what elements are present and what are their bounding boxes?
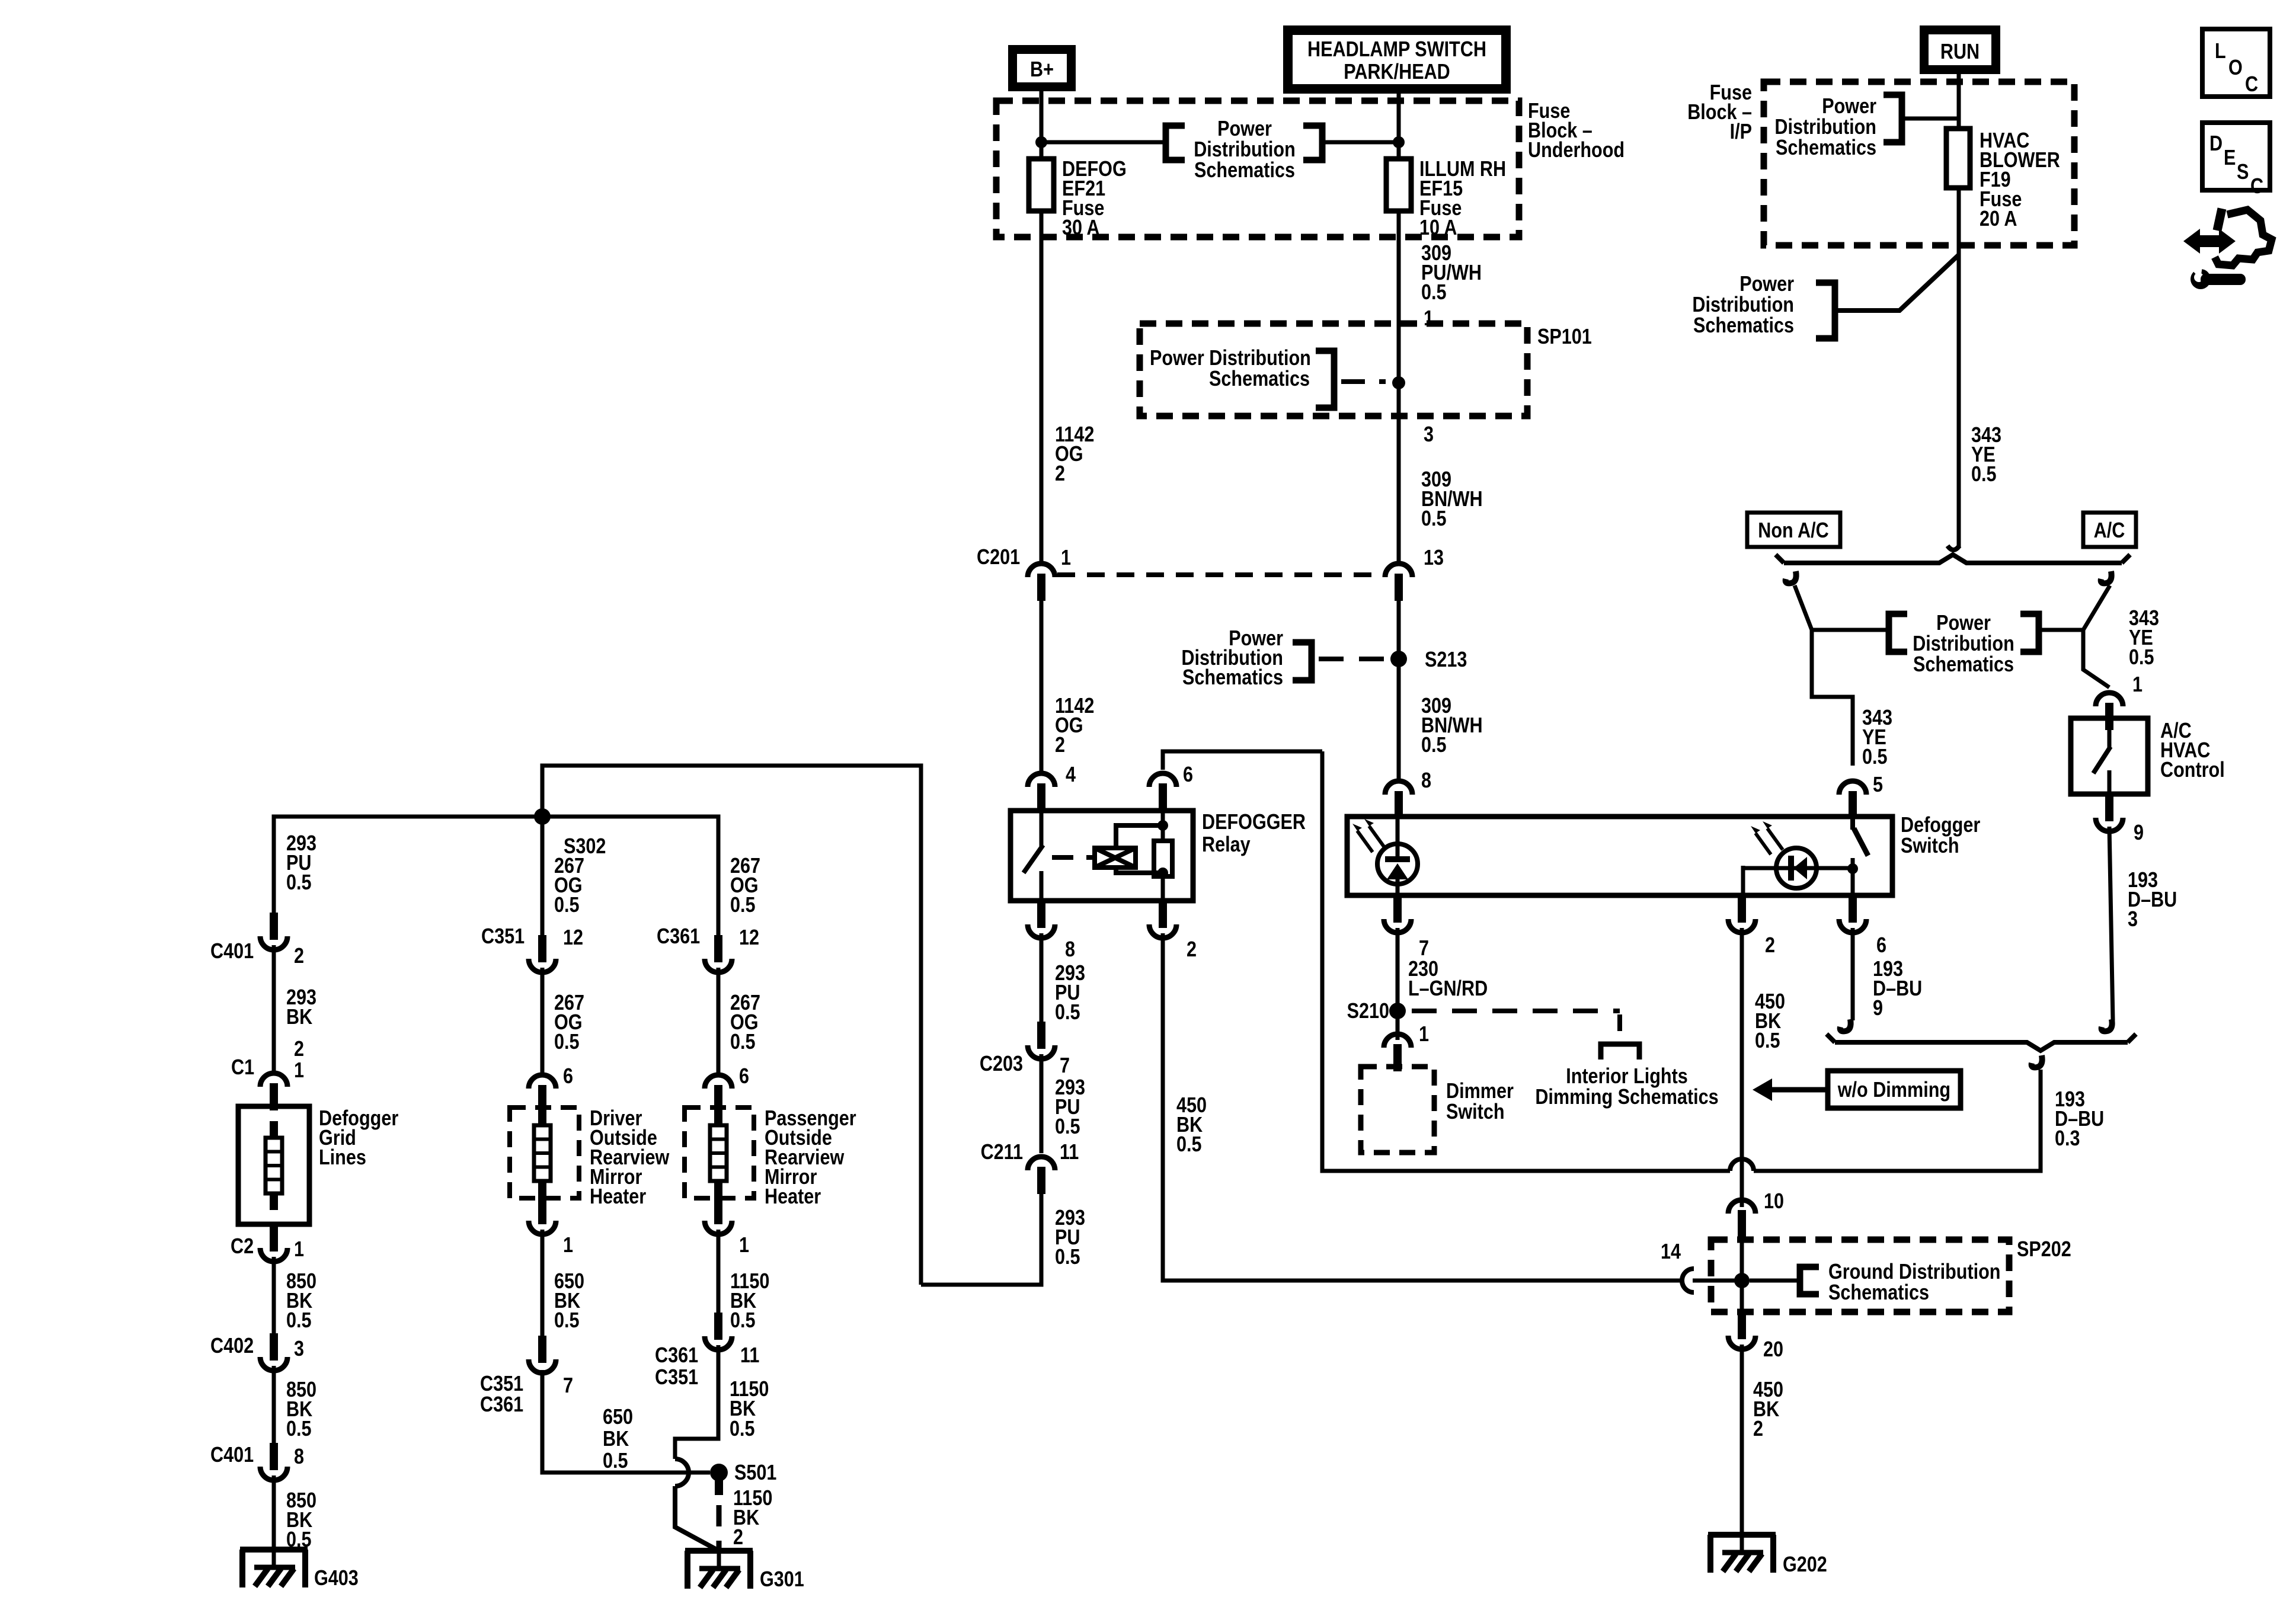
- svg-text:Relay: Relay: [1202, 833, 1251, 857]
- svg-text:0.5: 0.5: [1421, 507, 1447, 531]
- splice S302 dot: [534, 808, 551, 825]
- svg-text:10 A: 10 A: [1419, 216, 1457, 240]
- svg-text:C351: C351: [481, 925, 525, 949]
- wire AC pin9 down: [2109, 827, 2113, 1020]
- wrench and arrow icon: [2183, 209, 2272, 289]
- svg-text:1: 1: [294, 1238, 304, 1262]
- svg-text:C203: C203: [980, 1052, 1023, 1076]
- svg-text:0.3: 0.3: [2055, 1127, 2080, 1151]
- svg-text:11: 11: [1060, 1141, 1079, 1164]
- connector switch pin 7: [1384, 895, 1411, 933]
- svg-text:C2: C2: [231, 1235, 254, 1259]
- svg-text:2: 2: [294, 1038, 304, 1061]
- svg-text:6: 6: [739, 1065, 749, 1089]
- dimmer switch dashed box: [1361, 1067, 1434, 1153]
- relay DEFOGGER Relay box: [1011, 811, 1193, 901]
- svg-text:S210: S210: [1347, 1000, 1389, 1023]
- svg-text:6: 6: [1876, 934, 1886, 958]
- fuse HVAC BLOWER F19 20A: [1946, 129, 1970, 188]
- node Non A/C tag: [1747, 513, 1840, 547]
- relay switch contact: [1040, 811, 1044, 846]
- svg-text:0.5: 0.5: [603, 1449, 628, 1473]
- wire bracket to illum: [1322, 140, 1399, 145]
- svg-text:C: C: [2250, 175, 2263, 199]
- wire A/C branch: [2101, 571, 2112, 583]
- svg-text:Distribution: Distribution: [1692, 293, 1794, 317]
- wire dot to bracket: [1041, 140, 1166, 145]
- svg-text:Underhood: Underhood: [1528, 139, 1625, 162]
- svg-text:w/o Dimming: w/o Dimming: [1837, 1078, 1950, 1102]
- svg-text:Defogger: Defogger: [1901, 814, 1980, 837]
- relay coil: [1095, 825, 1163, 873]
- splice option brace top: [1776, 546, 2130, 563]
- svg-text:0.5: 0.5: [554, 894, 580, 917]
- wire below passenger pin 1: [717, 1230, 721, 1314]
- wire Non A/C branch: [1786, 571, 1796, 583]
- ground G301: [685, 1546, 753, 1589]
- svg-text:2: 2: [1055, 462, 1065, 486]
- svg-text:0.5: 0.5: [286, 1309, 312, 1333]
- splice S210 dot: [1389, 1003, 1406, 1019]
- svg-text:14: 14: [1661, 1240, 1681, 1264]
- wire below fuse: [1957, 188, 1961, 548]
- node B+: [1008, 45, 1076, 91]
- svg-text:1: 1: [1419, 1023, 1429, 1046]
- LED indicator right: [1743, 821, 1853, 895]
- svg-text:4: 4: [1066, 763, 1076, 787]
- svg-text:Dimming Schematics: Dimming Schematics: [1535, 1086, 1718, 1109]
- wire dashed SP101 bracket to node: [1341, 379, 1386, 384]
- svg-text:1: 1: [2132, 673, 2142, 697]
- defogger grid element: [266, 1121, 282, 1210]
- svg-text:Power: Power: [1217, 117, 1272, 141]
- svg-text:Distribution: Distribution: [1194, 138, 1296, 162]
- svg-text:7: 7: [1419, 937, 1429, 961]
- AC HVAC control box: [2071, 718, 2148, 794]
- bracket right power distribution: [1303, 126, 1322, 160]
- svg-text:650: 650: [603, 1406, 633, 1429]
- wire relay pin2 down to SP202 feed: [1163, 933, 1682, 1281]
- svg-text:6: 6: [563, 1065, 573, 1089]
- wire to G202: [1740, 1345, 1744, 1553]
- svg-text:9: 9: [1873, 997, 1883, 1020]
- node SP101 junction dot: [1392, 376, 1405, 389]
- LED indicator left: [1352, 817, 1418, 895]
- svg-text:2: 2: [294, 945, 304, 968]
- splice S501 dot: [710, 1464, 728, 1481]
- svg-text:12: 12: [563, 926, 583, 950]
- wire below C351: [541, 968, 545, 1073]
- wire below C2: [272, 1257, 276, 1334]
- wire S302 left branch: [274, 817, 542, 914]
- svg-text:Schematics: Schematics: [1194, 159, 1295, 183]
- wire below driver pin 1: [541, 1230, 545, 1337]
- wire driver down and right to S501: [542, 1370, 710, 1473]
- svg-text:0.5: 0.5: [554, 1030, 580, 1054]
- ground G403: [240, 1545, 308, 1587]
- connector pin 20: [1728, 1312, 1755, 1349]
- node junction dot right: [1393, 136, 1405, 148]
- defogger grid lines box: [238, 1106, 309, 1224]
- wire switch pin7 down: [1396, 928, 1400, 1040]
- svg-text:BK: BK: [603, 1427, 629, 1451]
- svg-text:Interior Lights: Interior Lights: [1566, 1065, 1688, 1089]
- bracket left power distribution: [1166, 126, 1185, 160]
- svg-text:L: L: [2215, 40, 2226, 63]
- svg-text:Power: Power: [1822, 95, 1876, 119]
- wire dashed S501 to ground: [715, 1480, 723, 1495]
- svg-text:3: 3: [2128, 908, 2138, 932]
- svg-text:0.5: 0.5: [286, 871, 312, 895]
- svg-text:13: 13: [1424, 546, 1444, 570]
- svg-text:A/C: A/C: [2094, 519, 2125, 543]
- svg-text:Dimmer: Dimmer: [1446, 1080, 1514, 1103]
- svg-text:E: E: [2224, 146, 2236, 170]
- svg-text:1: 1: [739, 1234, 749, 1257]
- splice merge brace bottom: [1840, 1019, 1851, 1031]
- svg-text:C211: C211: [981, 1141, 1023, 1164]
- svg-text:C361: C361: [480, 1393, 523, 1417]
- node w/o Dimming tag: [1753, 1071, 1961, 1108]
- wire below C203: [1040, 1054, 1044, 1153]
- svg-text:C201: C201: [977, 546, 1020, 569]
- relay resistor: [1154, 841, 1172, 876]
- svg-text:HEADLAMP SWITCH: HEADLAMP SWITCH: [1307, 38, 1486, 62]
- node SP202 junction dot: [1734, 1273, 1750, 1288]
- DESC box: [2202, 123, 2270, 199]
- svg-text:RUN: RUN: [1940, 40, 1980, 64]
- svg-text:C361: C361: [657, 925, 700, 949]
- svg-text:D: D: [2209, 132, 2223, 156]
- wire B+ down: [1040, 91, 1044, 159]
- svg-text:2: 2: [1187, 938, 1197, 962]
- AC control switch contact: [2108, 718, 2112, 748]
- svg-text:6: 6: [1183, 763, 1193, 787]
- svg-text:S: S: [2237, 161, 2249, 184]
- driver mirror heater element: [534, 1109, 551, 1198]
- svg-text:Power: Power: [1739, 273, 1794, 296]
- wire switch pin6 down: [1851, 928, 1855, 1020]
- svg-text:1: 1: [294, 1059, 304, 1083]
- connector relay pin 2: [1149, 901, 1176, 938]
- wire below C211 to riser: [921, 1193, 1041, 1285]
- svg-text:Schematics: Schematics: [1828, 1281, 1929, 1305]
- svg-text:B+: B+: [1030, 58, 1054, 82]
- svg-text:G202: G202: [1783, 1553, 1827, 1577]
- svg-text:3: 3: [1424, 423, 1434, 447]
- node junction dot left: [1035, 136, 1047, 148]
- wire riser up and over to S302: [542, 766, 921, 1285]
- wire switch pin2 down: [1740, 928, 1744, 1207]
- wire A below C201: [1040, 600, 1044, 771]
- node RUN: [1920, 25, 2000, 74]
- svg-text:Schematics: Schematics: [1182, 666, 1283, 690]
- svg-text:Switch: Switch: [1901, 834, 1959, 858]
- svg-text:Lines: Lines: [319, 1146, 366, 1170]
- connector passenger mirror pin 1: [705, 1197, 732, 1234]
- svg-text:12: 12: [739, 926, 759, 950]
- node A/C tag: [2083, 513, 2136, 547]
- splice SP202 dashed box: [1711, 1240, 2009, 1312]
- wire bracket to HVAC wire: [1902, 117, 1959, 121]
- fuse DEFOG EF21 30A: [1029, 159, 1054, 211]
- svg-text:Distribution: Distribution: [1913, 632, 2014, 656]
- svg-text:Schematics: Schematics: [1776, 136, 1876, 160]
- wire relay pin8 down: [1040, 933, 1044, 1023]
- svg-text:C1: C1: [231, 1056, 254, 1080]
- wire passenger loop to ground: [675, 1345, 718, 1459]
- wire illum fuse down to C201: [1397, 211, 1401, 561]
- svg-text:3: 3: [294, 1337, 304, 1361]
- fuse block IP dashed box: [1764, 82, 2074, 245]
- svg-text:1: 1: [1061, 546, 1071, 570]
- bracket SP101: [1316, 351, 1334, 408]
- connector relay pin 8: [1028, 901, 1055, 938]
- svg-text:S501: S501: [734, 1461, 776, 1485]
- connector switch pin 2: [1728, 895, 1755, 933]
- svg-text:9: 9: [2134, 821, 2144, 845]
- svg-text:C361: C361: [655, 1344, 698, 1368]
- passenger mirror heater element: [710, 1109, 727, 1198]
- svg-text:5: 5: [1873, 773, 1883, 797]
- connector driver mirror pin 1: [529, 1197, 556, 1234]
- svg-text:0.5: 0.5: [1421, 281, 1447, 305]
- fuse ILLUM RH EF15 10A: [1386, 159, 1411, 211]
- wire dashed relay control: [1052, 855, 1093, 860]
- switch contact right: [1847, 817, 1868, 895]
- bracket power distribution options: [1812, 628, 1889, 632]
- wire B below C201: [1397, 600, 1401, 779]
- defogger switch box: [1347, 817, 1892, 895]
- wire diagonal to power dist bracket: [1836, 255, 1959, 311]
- svg-text:8: 8: [1421, 769, 1431, 793]
- wire below C361: [717, 968, 721, 1073]
- wire 193 output down and left: [1754, 1070, 2041, 1171]
- wire below C402: [272, 1366, 276, 1444]
- svg-text:11: 11: [740, 1344, 759, 1368]
- svg-text:C: C: [2245, 73, 2258, 97]
- svg-text:Power Distribution: Power Distribution: [1150, 347, 1311, 370]
- svg-text:8: 8: [294, 1445, 304, 1469]
- fuse block underhood dashed box: [996, 101, 1519, 237]
- svg-text:7: 7: [563, 1374, 573, 1398]
- svg-text:0.5: 0.5: [1055, 1246, 1080, 1269]
- connector switch pin 6: [1839, 895, 1866, 933]
- svg-text:0.5: 0.5: [286, 1417, 312, 1441]
- svg-text:C401: C401: [210, 940, 254, 964]
- svg-text:20: 20: [1763, 1338, 1783, 1362]
- wire dashed S210 to interior lights: [1412, 1009, 1620, 1013]
- svg-text:Power: Power: [1936, 612, 1991, 635]
- LOC box: [2202, 29, 2270, 97]
- svg-text:SP202: SP202: [2017, 1238, 2071, 1262]
- svg-text:Distribution: Distribution: [1774, 116, 1876, 139]
- svg-text:Control: Control: [2160, 758, 2225, 782]
- svg-text:0.5: 0.5: [730, 1309, 756, 1333]
- splice S213 dot: [1390, 651, 1407, 667]
- wire headlamp down: [1397, 94, 1401, 159]
- svg-text:L–GN/RD: L–GN/RD: [1408, 977, 1488, 1001]
- svg-text:G403: G403: [314, 1567, 359, 1590]
- svg-text:0.5: 0.5: [730, 1030, 756, 1054]
- wire crossover hop over 450 BK: [1730, 1159, 1754, 1171]
- connector AC control pin 9: [2096, 794, 2123, 831]
- svg-text:2: 2: [1765, 934, 1775, 958]
- wire dashed to S213: [1319, 657, 1384, 661]
- svg-text:Schematics: Schematics: [1913, 653, 2014, 677]
- svg-text:DEFOGGER: DEFOGGER: [1202, 811, 1306, 834]
- svg-text:0.5: 0.5: [1971, 463, 1997, 486]
- wire defog fuse down to C201: [1040, 211, 1044, 561]
- svg-text:1: 1: [563, 1234, 573, 1257]
- svg-text:10: 10: [1764, 1190, 1784, 1214]
- node relay coil top dot: [1157, 820, 1168, 831]
- svg-text:SP101: SP101: [1537, 325, 1592, 349]
- svg-text:PARK/HEAD: PARK/HEAD: [1344, 60, 1450, 84]
- wire crossover hop at S501: [675, 1459, 689, 1486]
- svg-text:Heater: Heater: [590, 1185, 646, 1209]
- wire S302 right branch: [542, 817, 718, 936]
- svg-text:2: 2: [1753, 1417, 1763, 1441]
- svg-text:0.5: 0.5: [554, 1309, 580, 1333]
- node relay coil bottom dot: [1157, 868, 1168, 878]
- svg-text:7: 7: [1060, 1054, 1070, 1078]
- svg-text:0.5: 0.5: [2129, 646, 2154, 670]
- bracket ground distribution: [1750, 1279, 1800, 1283]
- svg-text:0.5: 0.5: [1421, 734, 1447, 757]
- svg-text:C401: C401: [210, 1443, 254, 1467]
- svg-text:1: 1: [1424, 307, 1434, 331]
- svg-text:0.5: 0.5: [1055, 1115, 1080, 1139]
- driver outside rearview mirror heater box: [510, 1108, 579, 1198]
- svg-text:Schematics: Schematics: [1209, 367, 1310, 391]
- svg-text:S213: S213: [1425, 648, 1467, 672]
- passenger outside rearview mirror heater box: [685, 1108, 754, 1198]
- svg-text:BK: BK: [286, 1006, 312, 1029]
- svg-text:30 A: 30 A: [1062, 216, 1099, 240]
- ground G202: [1708, 1530, 1776, 1573]
- bracket interior lights: [1601, 1044, 1639, 1060]
- wire 193 to relay coil riser: [1322, 751, 1730, 1171]
- svg-text:2: 2: [733, 1526, 743, 1550]
- wire SP202 through: [1740, 1236, 1744, 1312]
- wire relay pin6 riser: [1163, 751, 1322, 770]
- wire below C401-8: [272, 1475, 276, 1567]
- wire dashed C201 line: [1057, 572, 1383, 577]
- svg-text:Switch: Switch: [1446, 1100, 1505, 1124]
- svg-text:0.5: 0.5: [730, 894, 756, 917]
- svg-text:Heater: Heater: [765, 1185, 821, 1209]
- wire RUN down: [1957, 74, 1961, 129]
- svg-text:G301: G301: [760, 1568, 804, 1592]
- wire S302 down branch: [541, 817, 545, 936]
- svg-text:0.5: 0.5: [1176, 1133, 1202, 1157]
- svg-text:8: 8: [1065, 938, 1075, 962]
- svg-text:0.5: 0.5: [1055, 1001, 1080, 1025]
- svg-text:C351: C351: [480, 1372, 523, 1396]
- svg-text:I/P: I/P: [1730, 120, 1752, 144]
- node HEADLAMP SWITCH PARK/HEAD: [1283, 25, 1511, 94]
- svg-text:O: O: [2228, 56, 2243, 80]
- svg-text:Schematics: Schematics: [1693, 314, 1794, 338]
- svg-text:2: 2: [1055, 734, 1065, 757]
- svg-text:20 A: 20 A: [1980, 207, 2017, 231]
- svg-text:0.5: 0.5: [1755, 1029, 1780, 1053]
- svg-text:Ground Distribution: Ground Distribution: [1828, 1260, 2001, 1284]
- svg-text:Non A/C: Non A/C: [1758, 519, 1828, 543]
- splice SP101 dashed box: [1140, 324, 1527, 416]
- svg-text:0.5: 0.5: [1862, 745, 1888, 769]
- wire below C401: [272, 945, 276, 1071]
- svg-text:C351: C351: [655, 1366, 698, 1390]
- connector C2 pin 1: [260, 1224, 287, 1262]
- svg-text:0.5: 0.5: [730, 1417, 755, 1441]
- svg-text:C402: C402: [210, 1334, 254, 1358]
- connector C203 pin 7: [1028, 1022, 1055, 1059]
